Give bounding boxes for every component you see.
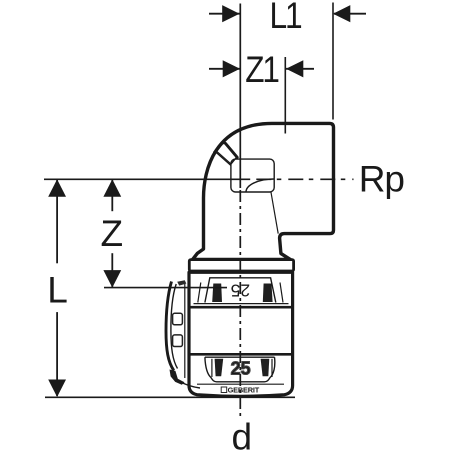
svg-text:L: L (47, 269, 68, 310)
svg-text:Rp: Rp (359, 159, 405, 200)
svg-text:L1: L1 (270, 0, 302, 36)
svg-text:d: d (232, 417, 253, 450)
svg-text:GEBERIT: GEBERIT (228, 386, 260, 395)
svg-text:Z1: Z1 (245, 49, 278, 90)
svg-text:Z: Z (101, 213, 124, 254)
